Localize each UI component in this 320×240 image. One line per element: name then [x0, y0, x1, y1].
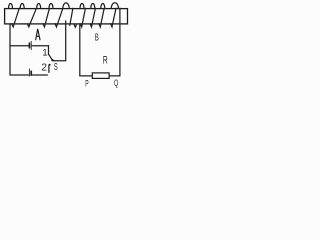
coil A wrap-under v tip	[74, 24, 77, 27]
coil B turn 3 arc	[101, 4, 105, 9]
svg-text:Q: Q	[114, 78, 118, 88]
resistor R box	[92, 73, 109, 79]
wire: battery branch horizontal right part	[32, 45, 49, 47]
coil B turn 3 diagonal	[99, 8, 104, 27]
wire: contact 1 drop	[48, 46, 50, 55]
switch contact 2 dot	[49, 64, 51, 66]
switch S pivot dot	[51, 59, 53, 61]
coil A turn 5 diagonal	[70, 8, 73, 25]
svg-text:1: 1	[42, 48, 47, 58]
svg-text:B: B	[95, 33, 99, 44]
coil A turn 2 diagonal	[27, 8, 36, 27]
coil A turn 2 arc	[20, 4, 24, 9]
battery G2 negative plate (short thick)	[30, 71, 32, 75]
wire: bottom branch with corner	[10, 74, 29, 76]
coil A turn 3 diagonal	[43, 8, 49, 27]
switch S blade	[49, 54, 53, 60]
svg-text:P: P	[85, 79, 88, 90]
battery G2 positive plate (long thin)	[28, 69, 30, 76]
coil A turn 4 diagonal	[55, 8, 63, 27]
label A (narrow glyph drawn as path)	[36, 29, 40, 40]
coil B turn 2 diagonal	[90, 8, 95, 27]
switch contact 2 stub	[48, 65, 50, 72]
svg-text:S: S	[54, 62, 58, 73]
svg-text:2: 2	[41, 63, 47, 74]
battery G1 negative plate (short thick)	[28, 43, 30, 48]
battery G1 positive plate (long thin)	[30, 41, 32, 49]
wire: bottom branch right part	[32, 74, 48, 76]
coil B turn 1 arc	[80, 4, 84, 9]
coil B turn 4 diagonal	[111, 8, 116, 27]
coil A turn 1 arc	[9, 4, 13, 9]
iron core bar	[5, 9, 128, 24]
wire: coil A left terminal down	[9, 24, 11, 75]
coil A turn 4 arc	[49, 4, 53, 9]
coil A turn 5 wide arc	[63, 3, 70, 9]
coil A turn 3 arc	[37, 4, 41, 9]
coil B turn 2 arc	[91, 4, 95, 9]
wire: resistor to Q corner	[109, 75, 120, 77]
coil B turn 1 diagonal	[80, 8, 85, 27]
wire: coil B right terminal	[119, 8, 121, 76]
svg-text:R: R	[103, 54, 108, 66]
coil B turn 4 wide arc	[111, 3, 118, 9]
wire: coil B left terminal down to P corner	[80, 24, 93, 76]
wire: battery branch horizontal left part	[10, 45, 29, 47]
wire: pivot to coil A right terminal	[53, 21, 66, 61]
coil A turn 1 diagonal	[12, 8, 20, 27]
